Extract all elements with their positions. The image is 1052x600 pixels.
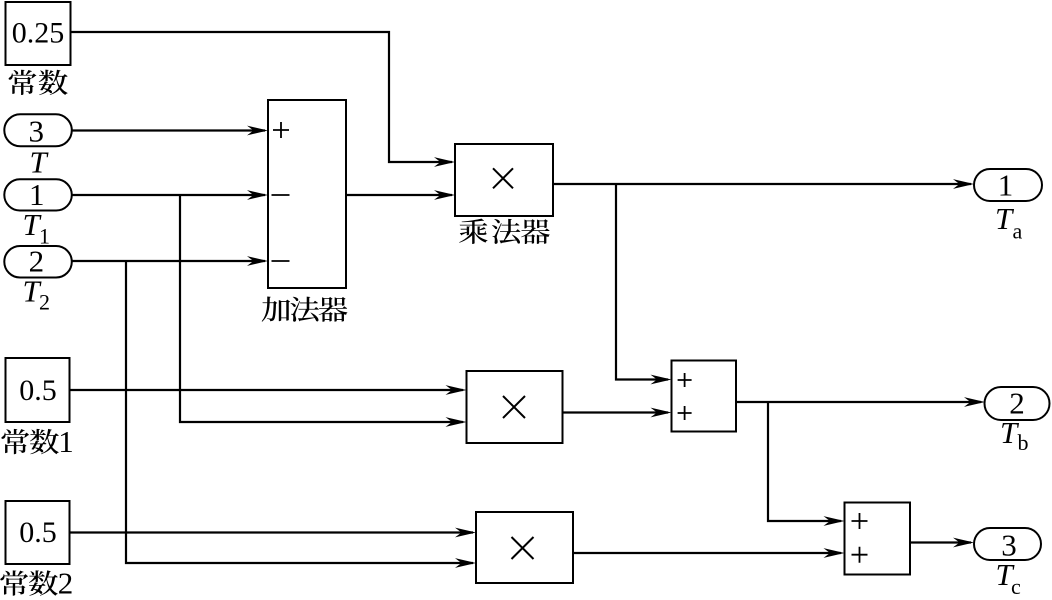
svg-text:T: T [30,145,50,180]
svg-text:0.5: 0.5 [19,374,57,407]
svg-text:c: c [1011,574,1021,599]
svg-text:1: 1 [998,168,1014,203]
svg-text:a: a [1013,218,1023,243]
svg-text:0.25: 0.25 [12,17,65,50]
svg-text:1: 1 [39,223,50,248]
svg-text:3: 3 [29,113,45,148]
svg-text:2: 2 [39,290,50,315]
svg-text:0.5: 0.5 [19,516,57,549]
svg-text:1: 1 [58,424,74,459]
svg-text:b: b [1018,430,1029,455]
svg-text:2: 2 [58,566,74,600]
